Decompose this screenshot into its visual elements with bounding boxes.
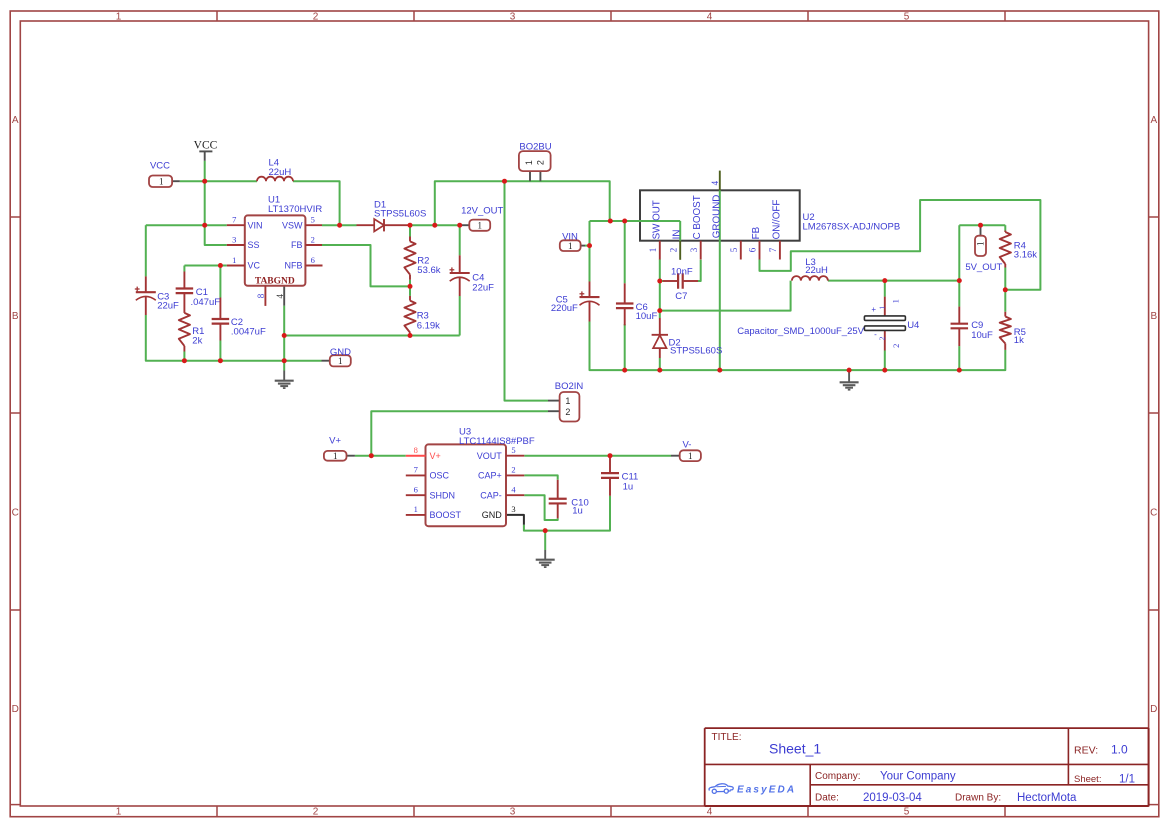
svg-text:10uF: 10uF [636,311,658,322]
svg-text:TITLE:: TITLE: [712,732,742,743]
svg-text:VCC: VCC [194,139,218,151]
svg-text:2: 2 [313,12,319,23]
svg-text:1: 1 [524,160,534,165]
svg-text:BO2BU: BO2BU [519,142,551,153]
svg-text:2019-03-04: 2019-03-04 [863,792,922,804]
svg-text:3.16k: 3.16k [1014,250,1037,261]
svg-text:7: 7 [768,247,778,252]
svg-text:10uF: 10uF [971,330,993,341]
svg-text:8: 8 [256,293,266,298]
svg-text:5V_OUT: 5V_OUT [965,262,1002,273]
svg-text:3: 3 [689,247,699,252]
svg-text:V+: V+ [430,451,441,461]
svg-text:4: 4 [707,807,713,818]
svg-text:1/1: 1/1 [1119,773,1135,785]
svg-text:22uF: 22uF [157,300,179,311]
svg-text:D: D [1150,704,1157,715]
svg-text:LTC1144IS8#PBF: LTC1144IS8#PBF [459,436,535,447]
svg-text:STPS5L60S: STPS5L60S [374,208,426,219]
svg-text:B: B [12,311,19,322]
svg-text:8: 8 [414,445,418,455]
svg-text:NFB: NFB [285,261,303,271]
svg-text:IN: IN [672,230,683,240]
svg-text:A: A [12,115,19,126]
svg-text:12V_OUT: 12V_OUT [461,205,503,216]
svg-text:C7: C7 [675,291,687,302]
svg-text:1.0: 1.0 [1111,743,1128,757]
svg-text:Sheet:: Sheet: [1074,774,1101,785]
svg-text:SS: SS [248,240,260,250]
svg-text:BOOST: BOOST [430,510,462,520]
svg-text:4: 4 [707,12,713,23]
svg-text:C: C [1150,507,1157,518]
svg-text:EasyEDA: EasyEDA [737,784,796,795]
svg-text:1: 1 [688,451,693,461]
svg-text:1: 1 [333,451,338,461]
svg-text:HectorMota: HectorMota [1017,792,1077,804]
svg-text:53.6k: 53.6k [417,265,440,276]
svg-text:VSW: VSW [282,220,303,230]
svg-text:BO2IN: BO2IN [555,381,584,392]
svg-text:2: 2 [535,160,545,165]
svg-text:TABGND: TABGND [255,276,295,286]
svg-text:STPS5L60S: STPS5L60S [670,345,722,356]
svg-text:10nF: 10nF [671,267,693,278]
svg-text:1u: 1u [572,506,583,517]
svg-text:.047uF: .047uF [191,297,221,308]
svg-text:3: 3 [511,504,515,514]
svg-text:VC: VC [248,261,261,271]
svg-text:5: 5 [729,247,739,252]
svg-text:-: - [874,330,877,339]
svg-text:2: 2 [891,344,901,348]
svg-text:.0047uF: .0047uF [231,327,266,338]
svg-text:LM2678SX-ADJ/NOPB: LM2678SX-ADJ/NOPB [803,221,901,232]
svg-text:2: 2 [311,234,315,244]
svg-text:1: 1 [975,242,985,247]
svg-text:1: 1 [877,306,886,310]
svg-text:A: A [1150,115,1157,126]
svg-text:1: 1 [414,504,418,514]
svg-text:VIN: VIN [248,220,263,230]
svg-text:Capacitor_SMD_1000uF_25V: Capacitor_SMD_1000uF_25V [737,326,864,337]
svg-text:1: 1 [116,12,122,23]
svg-text:1: 1 [116,807,122,818]
svg-text:4: 4 [275,294,285,299]
svg-text:CAP+: CAP+ [478,471,502,481]
svg-text:4: 4 [710,180,720,185]
svg-text:CAP-: CAP- [480,490,502,500]
svg-text:U4: U4 [907,320,919,331]
svg-text:LT1370HVIR: LT1370HVIR [268,204,322,215]
svg-text:5: 5 [311,215,315,225]
svg-text:6.19k: 6.19k [417,320,440,331]
svg-text:7: 7 [232,215,236,225]
svg-text:22uH: 22uH [269,167,292,178]
svg-text:5: 5 [904,12,910,23]
svg-text:1: 1 [565,396,570,406]
svg-text:D: D [12,704,19,715]
svg-text:SW OUT: SW OUT [651,200,662,239]
svg-text:1: 1 [338,356,343,366]
svg-text:V-: V- [683,440,692,451]
svg-text:1: 1 [159,176,164,186]
svg-text:2: 2 [565,407,570,417]
svg-text:220uF: 220uF [551,303,578,314]
svg-text:5: 5 [511,445,515,455]
svg-text:VCC: VCC [150,160,170,171]
svg-text:Drawn By:: Drawn By: [955,793,1001,804]
svg-text:Your Company: Your Company [880,770,956,782]
svg-text:B: B [1150,311,1157,322]
svg-text:Sheet_1: Sheet_1 [769,741,821,757]
svg-text:Date:: Date: [815,793,839,804]
svg-text:3: 3 [510,12,516,23]
svg-text:+: + [871,305,876,314]
svg-text:OSC: OSC [430,471,450,481]
svg-text:1u: 1u [623,481,634,492]
svg-text:2: 2 [511,465,515,475]
svg-text:3: 3 [232,234,236,244]
svg-text:7: 7 [414,465,418,475]
svg-text:6: 6 [414,485,418,495]
svg-text:1: 1 [568,241,573,251]
svg-text:1: 1 [890,299,900,303]
svg-text:1: 1 [648,248,658,253]
svg-text:1: 1 [477,221,482,231]
svg-text:C: C [12,507,19,518]
svg-text:FB: FB [291,240,303,250]
svg-text:2: 2 [668,248,678,253]
svg-text:ON//OFF: ON//OFF [771,200,782,240]
svg-text:1k: 1k [1014,335,1024,346]
svg-text:2k: 2k [192,336,202,347]
svg-text:GROUND: GROUND [711,195,722,239]
svg-text:5: 5 [904,807,910,818]
svg-text:22uF: 22uF [472,282,494,293]
svg-text:3: 3 [510,807,516,818]
svg-text:1: 1 [232,255,236,265]
svg-text:FB: FB [751,226,762,239]
svg-text:GND: GND [482,510,503,520]
svg-text:REV:: REV: [1074,744,1098,756]
svg-text:2: 2 [313,807,319,818]
svg-text:6: 6 [311,255,315,265]
svg-text:6: 6 [748,247,758,252]
svg-text:SHDN: SHDN [430,490,456,500]
svg-text:V+: V+ [329,435,341,446]
svg-text:Company:: Company: [815,771,861,782]
svg-text:2: 2 [877,336,886,340]
svg-text:VOUT: VOUT [477,451,503,461]
svg-text:C BOOST: C BOOST [692,195,703,239]
svg-text:22uH: 22uH [805,265,828,276]
